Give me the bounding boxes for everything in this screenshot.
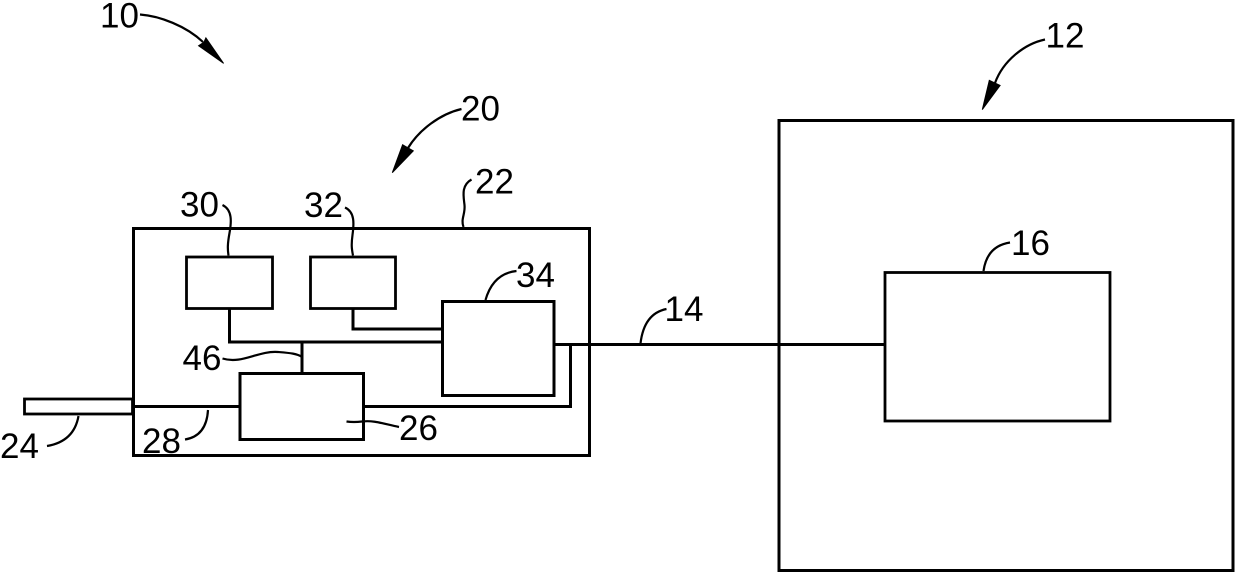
svg-text:24: 24 [0, 427, 39, 466]
wire stub node 46 to block 26 [301, 342, 304, 374]
controller outer box 22 [134, 229, 590, 456]
block 26 [240, 374, 364, 440]
block 32 [311, 257, 396, 309]
leader for 26 [347, 421, 400, 427]
leader for 46 [223, 352, 303, 360]
leader arrow for 20 [408, 109, 462, 148]
svg-text:10: 10 [100, 0, 139, 36]
svg-text:46: 46 [183, 339, 222, 378]
svg-text:30: 30 [180, 186, 219, 225]
leader for 30 [223, 205, 231, 256]
svg-text:22: 22 [475, 163, 514, 202]
svg-text:14: 14 [665, 290, 704, 329]
svg-text:32: 32 [304, 186, 343, 225]
wire from block 32 down [352, 309, 355, 330]
probe bar 24 [25, 399, 133, 414]
wire from block 26 right to drop [364, 405, 573, 408]
svg-text:26: 26 [399, 409, 438, 448]
leader for 14 [641, 309, 667, 344]
block 34 [443, 302, 555, 396]
wire 28 segment [134, 405, 241, 408]
leader for 16 [984, 243, 1011, 272]
leader arrow for 12 [995, 40, 1045, 84]
svg-text:28: 28 [142, 422, 181, 461]
block 16 [885, 273, 1110, 422]
block 30 [187, 257, 273, 309]
leader for 24 [47, 416, 79, 446]
leader for 28 [185, 410, 208, 440]
leader for 34 [486, 271, 517, 300]
svg-text:20: 20 [461, 90, 500, 129]
svg-text:34: 34 [516, 256, 555, 295]
wire vertical drop inside box 22 [569, 345, 572, 407]
svg-text:12: 12 [1046, 17, 1085, 56]
leader for 32 [345, 208, 353, 256]
wire from block 30 down [228, 309, 231, 343]
wire 14 from block 34 to block 16 [554, 343, 885, 346]
leader for 22 [463, 180, 472, 228]
leader arrow for 10 [140, 15, 203, 43]
svg-text:16: 16 [1011, 224, 1050, 263]
wire from block 32 to block 34 [352, 328, 443, 331]
device outer box 12 [779, 121, 1233, 571]
wire bus to block 34 (node 46 branch) [228, 341, 443, 344]
